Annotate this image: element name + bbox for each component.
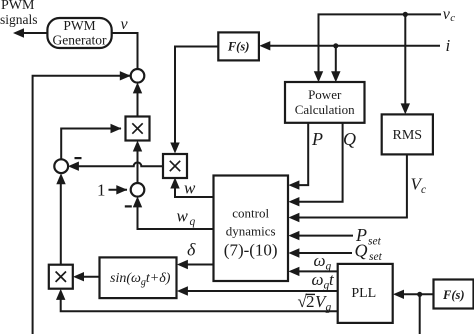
svg-text:v: v <box>121 16 129 33</box>
svg-text:c: c <box>421 184 426 196</box>
svg-text:RMS: RMS <box>393 128 423 143</box>
svg-text:PWM: PWM <box>63 18 95 33</box>
svg-text:sin(ωgt+δ): sin(ωgt+δ) <box>110 271 171 288</box>
svg-text:PLL: PLL <box>351 286 376 301</box>
svg-text:Generator: Generator <box>53 33 107 48</box>
svg-text:Q: Q <box>343 129 356 149</box>
svg-text:t: t <box>329 270 335 289</box>
svg-text:g: g <box>326 302 332 314</box>
svg-text:control: control <box>232 206 269 221</box>
svg-text:q: q <box>190 216 196 228</box>
svg-text:Q: Q <box>355 241 368 261</box>
svg-text:dynamics: dynamics <box>226 224 276 239</box>
svg-text:c: c <box>450 12 455 24</box>
svg-text:(7)-(10): (7)-(10) <box>224 241 278 260</box>
svg-text:w: w <box>184 178 196 197</box>
svg-text:ω: ω <box>312 270 324 289</box>
svg-text:1: 1 <box>97 181 106 200</box>
svg-text:signals: signals <box>0 12 38 27</box>
svg-text:set: set <box>369 251 383 263</box>
svg-text:F(s): F(s) <box>227 40 250 54</box>
svg-text:i: i <box>446 36 451 55</box>
svg-text:set: set <box>368 236 382 248</box>
svg-text:Power: Power <box>308 87 342 102</box>
svg-text:w: w <box>177 207 189 226</box>
svg-text:P: P <box>311 129 323 149</box>
svg-text:Calculation: Calculation <box>295 102 355 117</box>
svg-text:δ: δ <box>187 240 196 260</box>
svg-text:ω: ω <box>314 251 326 270</box>
svg-text:F(s): F(s) <box>442 288 465 302</box>
